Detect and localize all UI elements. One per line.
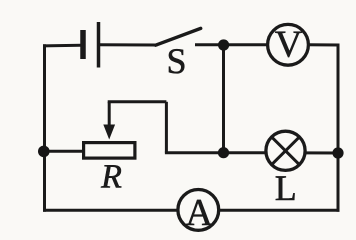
wire: switch contact to node T1 — [197, 43, 224, 46]
wire: ammeter to bottom right corner — [220, 209, 338, 212]
svg-text:A: A — [185, 192, 213, 234]
wire: node T1 down to node T2 — [222, 45, 225, 153]
svg-text:V: V — [275, 24, 303, 66]
battery plate: short thick (negative) — [80, 30, 86, 59]
battery plate: long thin (positive) — [97, 22, 101, 68]
wire: right vertical side — [337, 45, 340, 210]
wire: lamp to right node — [306, 151, 339, 154]
switch S blade (open) — [156, 28, 201, 45]
wire: wiper branch down to lamp row — [165, 102, 168, 153]
wire: top-left, battery to left corner — [45, 44, 81, 48]
lamp L — [266, 131, 305, 170]
wire: voltmeter to top right corner — [309, 43, 338, 46]
resistor R (rheostat body) — [84, 143, 135, 159]
wire: left node to rheostat R left terminal — [44, 150, 82, 153]
svg-text:S: S — [166, 41, 186, 81]
wire: rheostat branch to node T2 and lamp — [166, 151, 266, 154]
svg-text:R: R — [100, 159, 122, 196]
wire: rheostat wiper vertical (to arrow) — [108, 102, 111, 128]
rheostat wiper arrowhead — [103, 125, 115, 140]
node left junction dot — [38, 146, 50, 158]
node T2 junction dot — [218, 147, 229, 158]
wire: node T1 to voltmeter — [224, 43, 268, 46]
svg-text:L: L — [275, 168, 297, 208]
ammeter A1 — [178, 190, 219, 234]
node right junction dot — [332, 147, 343, 158]
voltmeter V1 — [268, 24, 309, 66]
node T1 junction dot — [218, 39, 229, 50]
wire: wiper branch horizontal — [108, 100, 167, 103]
wire: battery to switch pivot — [99, 43, 156, 46]
wire: bottom left corner to ammeter — [45, 209, 178, 212]
wire: left vertical side — [43, 46, 46, 210]
